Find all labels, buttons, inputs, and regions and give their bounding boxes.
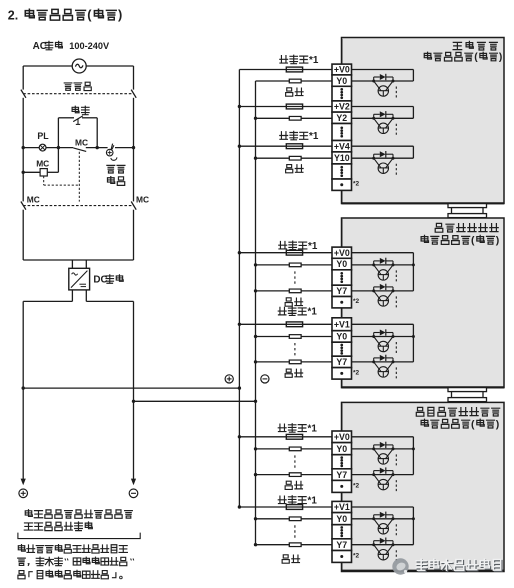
svg-text:*1: *1 bbox=[308, 423, 318, 434]
svg-text:*1: *1 bbox=[308, 495, 318, 506]
svg-text:Y0: Y0 bbox=[336, 259, 347, 269]
svg-text:): ) bbox=[496, 418, 500, 430]
svg-text:*2: *2 bbox=[353, 181, 360, 188]
svg-text:*2: *2 bbox=[353, 369, 360, 376]
svg-text:Y7: Y7 bbox=[336, 470, 347, 480]
svg-text:MC: MC bbox=[136, 194, 149, 204]
svg-text:Y7: Y7 bbox=[336, 286, 347, 296]
svg-text:MC: MC bbox=[27, 194, 40, 204]
svg-text:*1: *1 bbox=[308, 307, 318, 318]
svg-text:(: ( bbox=[471, 418, 475, 430]
svg-text:(: ( bbox=[474, 52, 478, 63]
svg-text:(: ( bbox=[471, 235, 475, 247]
svg-text:+V0: +V0 bbox=[334, 65, 350, 75]
svg-text:Y7: Y7 bbox=[336, 357, 347, 367]
svg-text:+V4: +V4 bbox=[334, 141, 350, 151]
svg-text:(: ( bbox=[87, 7, 92, 22]
svg-text:PL: PL bbox=[37, 131, 49, 141]
svg-text:Y2: Y2 bbox=[336, 113, 347, 123]
svg-text:+V1: +V1 bbox=[334, 319, 350, 329]
svg-text:Y10: Y10 bbox=[334, 153, 350, 163]
svg-text:+V0: +V0 bbox=[334, 248, 350, 258]
svg-text:Y7: Y7 bbox=[336, 540, 347, 550]
svg-text:*1: *1 bbox=[309, 131, 319, 142]
svg-text:100-240V: 100-240V bbox=[69, 41, 110, 51]
svg-text:*2: *2 bbox=[353, 482, 360, 489]
svg-text:Y0: Y0 bbox=[336, 444, 347, 454]
svg-text:MC: MC bbox=[75, 137, 88, 147]
svg-text:): ) bbox=[118, 7, 122, 22]
svg-text:+V2: +V2 bbox=[334, 102, 350, 112]
svg-text:*2: *2 bbox=[353, 298, 360, 305]
svg-text:Y0: Y0 bbox=[336, 332, 347, 342]
svg-text:*1: *1 bbox=[309, 55, 319, 66]
svg-text:*2: *2 bbox=[353, 552, 360, 559]
svg-text:2.: 2. bbox=[8, 9, 18, 23]
svg-text:*1: *1 bbox=[308, 241, 318, 252]
svg-text:+V1: +V1 bbox=[334, 502, 350, 512]
svg-text:MC: MC bbox=[36, 159, 49, 169]
svg-text:+V0: +V0 bbox=[334, 432, 350, 442]
svg-text:): ) bbox=[499, 52, 502, 63]
svg-text:Y0: Y0 bbox=[336, 514, 347, 524]
svg-text:Y0: Y0 bbox=[336, 76, 347, 86]
svg-text:): ) bbox=[496, 235, 500, 247]
